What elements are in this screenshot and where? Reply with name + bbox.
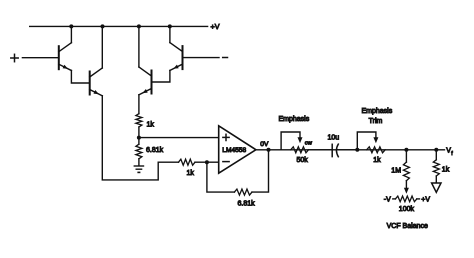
svg-text:Emphasis: Emphasis <box>279 116 310 123</box>
svg-text:0V: 0V <box>260 141 269 148</box>
svg-text:cw: cw <box>305 141 313 147</box>
svg-text:+V: +V <box>421 197 430 204</box>
svg-text:10u: 10u <box>328 134 340 141</box>
svg-text:1k: 1k <box>442 167 450 174</box>
svg-text:VCF Balance: VCF Balance <box>387 223 428 230</box>
svg-text:Emphasis: Emphasis <box>362 108 393 115</box>
svg-text:LM4558: LM4558 <box>222 147 246 154</box>
svg-text:-V: -V <box>384 197 391 204</box>
svg-text:Trim: Trim <box>369 118 383 125</box>
svg-text:50k: 50k <box>297 157 309 164</box>
svg-text:1k: 1k <box>373 157 381 164</box>
svg-text:6.81k: 6.81k <box>238 201 256 208</box>
svg-text:+V: +V <box>211 22 220 31</box>
svg-text:f: f <box>451 151 453 157</box>
svg-text:6.81k: 6.81k <box>146 147 164 154</box>
svg-text:1M: 1M <box>391 168 401 175</box>
svg-text:1k: 1k <box>187 170 195 177</box>
svg-text:1k: 1k <box>147 121 155 128</box>
svg-text:100k: 100k <box>399 206 415 213</box>
